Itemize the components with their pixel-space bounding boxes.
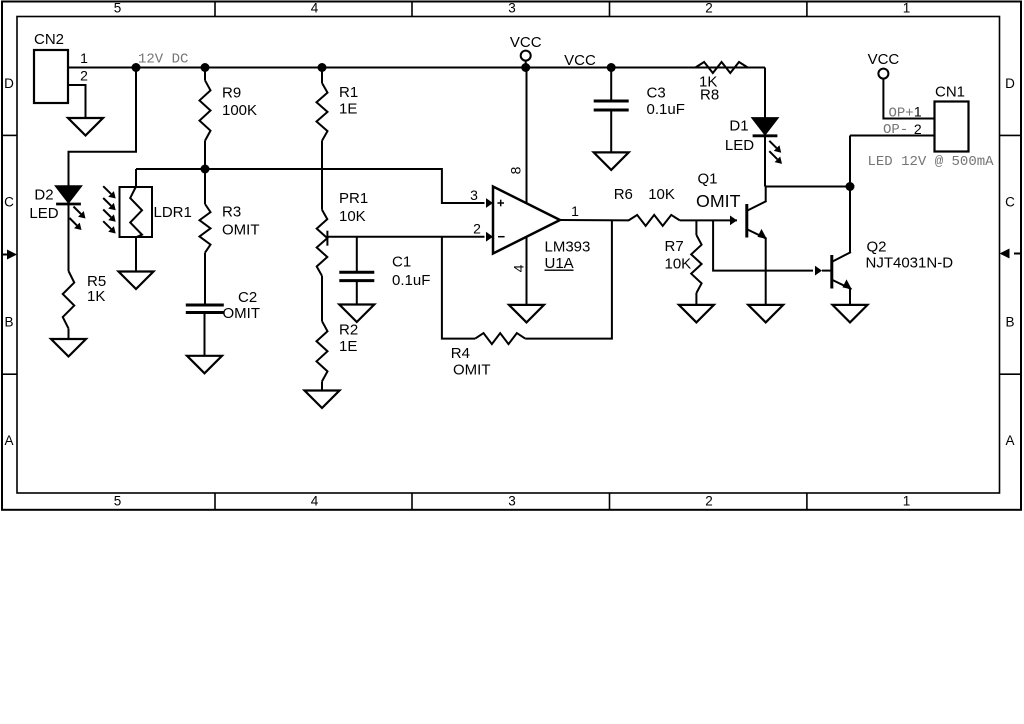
capacitor C1 (339, 237, 374, 305)
junction at U1 pin8/VCC (521, 63, 530, 72)
U1 pin 2 arrow (473, 220, 493, 241)
wire Q1 base branch to Q2 base (713, 220, 813, 270)
R1 labels (339, 84, 358, 118)
frame zone labels (4, 0, 1015, 508)
ground at C2 (187, 356, 222, 374)
svg-text:B: B (1005, 314, 1014, 329)
svg-text:10K: 10K (339, 208, 366, 225)
ground at R2 (305, 391, 340, 409)
wire Q2 emitter to ground (849, 289, 851, 305)
wire node to LDR1 top (135, 169, 137, 187)
connector CN1 (935, 84, 969, 152)
U1 pin 3 arrow (470, 187, 493, 208)
wire Q2 collector to node (849, 187, 851, 253)
ground at Q1 emitter (748, 305, 783, 323)
LDR1 light arrows (103, 186, 116, 233)
svg-text:Q2: Q2 (867, 238, 887, 255)
svg-text:CN2: CN2 (34, 31, 64, 48)
R9 labels (222, 85, 257, 120)
svg-text:2: 2 (80, 68, 88, 84)
svg-text:Q1: Q1 (698, 171, 718, 188)
svg-text:U1A: U1A (545, 255, 574, 272)
ground at U1 pin 4 (509, 305, 544, 323)
U1 pin 8 / VCC (508, 34, 542, 203)
resistor R1 (317, 68, 328, 210)
svg-text:D2: D2 (34, 187, 53, 204)
svg-text:OMIT: OMIT (223, 305, 261, 322)
R7 labels (665, 238, 692, 273)
svg-text:OP+: OP+ (889, 105, 914, 121)
CN2 pin 2 (68, 68, 88, 118)
CN1 pin 1 labels (889, 104, 922, 122)
svg-text:4: 4 (510, 264, 526, 272)
transistor Q2 (832, 252, 852, 289)
Q1 labels (696, 171, 741, 212)
Q1 base wire arrow (730, 216, 737, 226)
svg-text:C3: C3 (647, 85, 666, 102)
feedback resistor R4 (OMIT) (442, 220, 612, 344)
svg-text:A: A (4, 433, 13, 448)
transistor Q1 (OMIT) (747, 187, 767, 239)
wire rail to D2 anode (69, 68, 137, 187)
node wire LDR/R3 to comparator +input (136, 169, 485, 203)
wire D1 to Q1 collector node (764, 137, 766, 187)
capacitor C2 (OMIT) (186, 305, 224, 356)
svg-text:10K: 10K (648, 186, 675, 203)
junction at Q2 collector / CN1 (846, 182, 855, 191)
svg-text:OMIT: OMIT (696, 191, 741, 211)
svg-text:OMIT: OMIT (453, 361, 491, 378)
svg-text:VCC: VCC (564, 52, 596, 69)
wire Q1 emitter to ground (765, 238, 767, 305)
svg-text:D: D (4, 76, 14, 91)
D1 labels (725, 118, 754, 154)
R2 labels (339, 322, 358, 356)
resistor R5 (63, 271, 75, 329)
svg-text:B: B (4, 314, 13, 329)
U1 pin 4 to ground (510, 237, 526, 305)
ground at R5 (51, 339, 86, 357)
svg-text:R8: R8 (700, 87, 719, 104)
wire R8 to D1 (764, 68, 766, 119)
R3 labels (222, 204, 260, 239)
junction at R1 top (318, 63, 327, 72)
R4 labels (451, 345, 491, 379)
resistor R9 (200, 68, 211, 170)
svg-text:D: D (1005, 76, 1015, 91)
capacitor C3 (594, 68, 629, 153)
U1 output pin 1 wire (560, 203, 629, 220)
svg-text:10K: 10K (665, 256, 692, 273)
svg-text:R1: R1 (339, 84, 358, 101)
svg-text:1E: 1E (339, 101, 357, 118)
junction at R9 bottom / R3 top (201, 165, 210, 174)
svg-text:2: 2 (705, 494, 713, 509)
svg-text:1: 1 (914, 104, 922, 120)
svg-text:C: C (1005, 194, 1015, 209)
resistor R8 (695, 62, 765, 73)
R5 labels (87, 273, 106, 305)
connector CN2 (34, 31, 68, 103)
node wire to CN1 branch (765, 186, 850, 188)
svg-text:1: 1 (903, 0, 911, 15)
svg-text:LED 12V @ 500mA: LED 12V @ 500mA (868, 154, 995, 170)
svg-text:C2: C2 (238, 289, 257, 306)
wire PR1 to R2 (321, 276, 323, 321)
svg-text:2: 2 (914, 121, 922, 137)
R6 labels (614, 186, 675, 203)
svg-text:0.1uF: 0.1uF (647, 101, 685, 118)
wiper wire PR1 to comparator -input (327, 236, 484, 238)
Q2 base wire arrow (815, 266, 831, 276)
ground at CN2 pin 2 (68, 118, 103, 136)
wire LDR1 to ground (135, 237, 137, 272)
wire R5 to ground (68, 329, 70, 339)
svg-text:5: 5 (114, 494, 122, 509)
Q2 labels (866, 238, 954, 271)
junction at CN2/D2 branch (132, 63, 141, 72)
R8 labels (699, 73, 719, 103)
svg-text:NJT4031N-D: NJT4031N-D (866, 255, 954, 272)
left border centering arrow (2, 250, 17, 260)
svg-text:CN1: CN1 (935, 84, 965, 101)
CN1 pin 2 wire (850, 136, 935, 187)
resistor R3 (OMIT) (200, 169, 211, 304)
svg-text:PR1: PR1 (339, 190, 368, 207)
D2 light arrows (70, 207, 86, 231)
LED D1 (753, 118, 778, 136)
svg-text:3: 3 (470, 187, 478, 203)
svg-text:LDR1: LDR1 (154, 204, 192, 221)
junction at C3 top (607, 63, 616, 72)
svg-text:3: 3 (508, 0, 516, 15)
sheet border frame (2, 2, 1021, 510)
svg-text:1: 1 (571, 203, 579, 219)
svg-text:4: 4 (311, 494, 319, 509)
svg-text:LED: LED (29, 205, 58, 222)
C1 labels (392, 254, 430, 290)
photoresistor LDR1 (120, 187, 153, 238)
svg-text:0.1uF: 0.1uF (392, 272, 430, 289)
ground at C1 (339, 305, 374, 323)
svg-text:OP-: OP- (883, 122, 908, 138)
U1 labels (545, 238, 591, 272)
svg-text:R3: R3 (222, 204, 241, 221)
ground at Q2 emitter (833, 305, 868, 323)
svg-text:VCC: VCC (510, 34, 542, 51)
PR1 labels (339, 190, 368, 225)
resistor R2 (317, 321, 328, 390)
svg-text:1K: 1K (87, 288, 105, 305)
CN1 pin 2 labels (883, 121, 922, 138)
svg-text:1E: 1E (339, 338, 357, 355)
svg-text:1: 1 (903, 494, 911, 509)
op-amp U1 LM393 (493, 187, 560, 254)
svg-text:R2: R2 (339, 322, 358, 339)
svg-text:2: 2 (705, 0, 713, 15)
svg-text:C: C (4, 194, 14, 209)
svg-text:4: 4 (311, 0, 319, 15)
connector CN1 VCC terminal (868, 51, 935, 119)
svg-text:8: 8 (508, 166, 524, 174)
svg-text:5: 5 (114, 0, 122, 15)
svg-text:R9: R9 (222, 85, 241, 102)
svg-text:R4: R4 (451, 345, 470, 362)
D1 light arrows (769, 141, 782, 164)
svg-text:R6: R6 (614, 186, 633, 203)
D2 labels (29, 187, 58, 223)
LED D2 (56, 186, 81, 204)
wire D2 to R5 (68, 204, 70, 271)
potentiometer PR1 (317, 210, 328, 276)
power rail wire 12V/VCC (68, 67, 765, 69)
svg-text:12V DC: 12V DC (138, 52, 188, 68)
C2 labels (223, 289, 261, 322)
resistor R7 (691, 220, 701, 305)
right border centering arrow (1000, 249, 1022, 259)
svg-text:LM393: LM393 (545, 238, 591, 255)
ground at R7 (679, 305, 714, 323)
svg-text:1: 1 (80, 50, 88, 66)
CN2 pin 1 (68, 50, 136, 68)
svg-text:VCC: VCC (868, 51, 900, 68)
svg-text:3: 3 (508, 494, 516, 509)
ground at C3 (594, 152, 629, 170)
resistor R6 (629, 215, 737, 226)
svg-text:C1: C1 (392, 254, 411, 271)
svg-text:D1: D1 (729, 118, 748, 135)
svg-text:LED: LED (725, 137, 754, 154)
C3 labels (647, 85, 685, 119)
svg-text:A: A (1005, 433, 1014, 448)
svg-text:2: 2 (473, 220, 481, 236)
svg-text:100K: 100K (222, 102, 257, 119)
ground at LDR1 (119, 272, 154, 290)
svg-text:R7: R7 (665, 238, 684, 255)
junction at R9 top (201, 63, 210, 72)
svg-text:OMIT: OMIT (222, 222, 260, 239)
